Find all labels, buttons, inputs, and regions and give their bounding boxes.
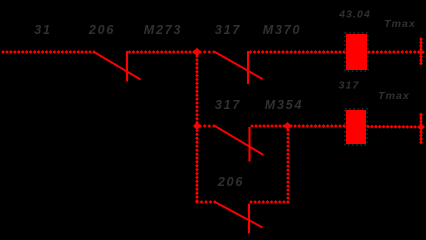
junction A (node at x197 y52) [193, 48, 201, 56]
wire node M273, contact S1 to junction A [128, 50, 196, 54]
svg-text:M370: M370 [263, 23, 301, 37]
svg-text:206: 206 [217, 175, 244, 189]
svg-text:M354: M354 [265, 98, 303, 112]
wire junction B to contact S3, rung 2 [198, 124, 216, 128]
contact S3 (317), rung 2 [215, 126, 264, 162]
svg-text:31: 31 [34, 23, 52, 37]
wire vertical, bottom branch up to junction C [286, 128, 290, 204]
svg-text:317: 317 [215, 98, 241, 112]
wire node M370, contact S2 to coil K1 [249, 50, 346, 54]
wire coil K2 to right rail tick, rung 2 [366, 125, 425, 129]
coil K1 (43.04) energized block [345, 33, 368, 71]
svg-text:43.04: 43.04 [338, 9, 371, 21]
contact S2 (317), rung 1 [215, 51, 263, 84]
wire node M354, contact S3 to junction C [250, 124, 286, 128]
wire from left rail to contact S1, rung 1 [1, 50, 96, 54]
wire bottom-left corner to contact S4 [195, 200, 217, 204]
wire contact S4 to bottom-right corner [249, 200, 290, 204]
svg-text:M273: M273 [144, 23, 182, 37]
wire vertical branch, junction A down to bottom branch [195, 54, 199, 203]
svg-text:317: 317 [215, 23, 241, 37]
right rail tick, rung 1 [419, 37, 423, 65]
wire junction A to contact S2 [198, 50, 216, 54]
wire junction C to coil K2, rung 2 [289, 124, 346, 128]
contact S1 (206), rung 1 [94, 51, 141, 82]
contact S4 (206), bottom branch [216, 203, 263, 234]
svg-text:Tmax: Tmax [378, 90, 410, 102]
svg-text:Tmax: Tmax [384, 18, 416, 30]
junction C (node at x288 y126) [284, 122, 292, 130]
junction B (node at x197 y126) [193, 122, 201, 130]
coil K2 (317 Tmax) energized block [345, 109, 367, 145]
svg-text:317: 317 [339, 80, 360, 92]
right rail tick, rung 2 [419, 113, 423, 145]
wire coil K1 to right rail tick, rung 1 [367, 50, 425, 54]
svg-text:206: 206 [88, 23, 115, 37]
